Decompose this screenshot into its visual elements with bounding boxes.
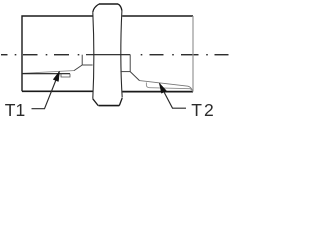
wire T2-bore-wall <box>120 71 130 73</box>
hex top-left-arc <box>93 4 99 12</box>
node axis-solid-segment <box>86 54 130 56</box>
wire T1-thread-major-line <box>23 73 70 75</box>
wire T2-bore-bottom-face <box>129 55 131 72</box>
hex bottom-right-arc <box>119 98 122 106</box>
wire T1-arrowhead <box>53 71 59 81</box>
wire right-body-top <box>122 15 193 17</box>
hex top-flat <box>99 3 118 5</box>
node label-T2 <box>191 100 213 121</box>
wire T2-countersink-cone <box>130 72 139 81</box>
wire T1-countersink-cone <box>74 65 82 71</box>
wire right-body-end <box>192 16 194 92</box>
wire right-body-bottom <box>122 91 193 93</box>
centerline <box>1 54 229 56</box>
wire T1-leader <box>32 72 60 109</box>
hex top-right-arc <box>118 4 122 11</box>
wire T2-thread-crest-line <box>146 83 192 92</box>
hex bottom-flat <box>99 105 120 107</box>
wire T2-leader <box>160 84 186 109</box>
hex left-edge <box>93 12 94 99</box>
wire T1-bore-bottom-face <box>81 55 83 65</box>
wire T1-thread-root-line <box>23 71 74 74</box>
node label-T1 <box>5 100 25 121</box>
wire left-body-outline <box>22 16 93 91</box>
wire T2-thread-taper-line <box>140 81 193 92</box>
wire T1-undercut-groove <box>61 74 70 77</box>
hex right-edge <box>121 11 122 98</box>
hex bottom-left-arc <box>93 99 98 106</box>
wire T2-arrowhead <box>159 83 166 93</box>
wire T1-bore-wall <box>82 64 92 66</box>
